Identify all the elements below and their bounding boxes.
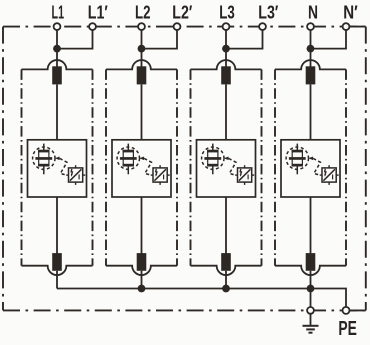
SPD symbol stubs — [244, 165, 246, 168]
SPD symbol diagonal — [239, 169, 251, 180]
module outline bottom edge with arch — [275, 266, 346, 275]
wire arrester box to bottom disconnector — [225, 197, 227, 254]
node junction dot L1/L1′ — [53, 45, 61, 53]
module outline right side (dash-dot) — [176, 69, 178, 265]
wire L3′ terminal down and left to junction — [226, 27, 263, 49]
SPD symbol lightning arrow — [240, 169, 241, 175]
spark gap envelope and electrodes — [207, 150, 218, 153]
module outline bottom edge with arch — [22, 266, 93, 275]
SPD symbol lightning arrow — [71, 169, 72, 175]
terminal L2 — [138, 23, 145, 30]
spark gap (encapsulated) dashed circle — [33, 147, 55, 169]
wire N terminal down to junction — [310, 27, 312, 49]
spark gap (encapsulated) dashed circle — [202, 147, 224, 169]
thermal disconnector (bottom fuse) L1 — [52, 253, 62, 271]
spark gap electrode stubs — [296, 144, 298, 150]
wire junction to top disconnector — [141, 49, 143, 68]
module outline left side (dash-dot) — [274, 69, 276, 265]
SPD symbol diagonal — [323, 169, 335, 180]
wire L3 terminal down to junction — [225, 27, 227, 49]
svg-text:L1′: L1′ — [88, 2, 108, 23]
node bus junction N — [307, 285, 315, 293]
wire L2 terminal down to junction — [141, 27, 143, 49]
thermal disconnector (bottom fuse) L2 — [137, 253, 147, 271]
terminal L1′ — [89, 23, 96, 30]
thermal disconnector (top fuse) L3 — [221, 66, 231, 84]
module outline left side (dash-dot) — [105, 69, 107, 265]
terminal earth — [307, 307, 314, 314]
thermal disconnector (top fuse) L1 — [52, 66, 62, 84]
spark gap envelope and electrodes — [38, 150, 49, 153]
svg-text:L3′: L3′ — [258, 2, 278, 23]
SPD symbol stubs — [328, 165, 330, 168]
disconnector actuation arrow — [139, 157, 144, 161]
disconnector actuation arrow — [308, 157, 313, 161]
enclosure border bottom — [3, 309, 366, 311]
arrester element box U3 — [197, 140, 256, 197]
terminal N — [307, 23, 314, 30]
disconnector actuation arrow — [55, 157, 60, 161]
wire arrester box to bottom disconnector — [56, 197, 58, 254]
spark gap middle electrode bar — [35, 157, 52, 160]
thermal disconnector (top fuse) L2 — [137, 66, 147, 84]
spark gap (encapsulated) dashed circle — [286, 147, 308, 169]
module outline right side (dash-dot) — [261, 69, 263, 265]
PE bus wire — [57, 289, 346, 311]
SPD symbol tick — [163, 175, 165, 180]
wire L1 terminal down to junction — [56, 27, 58, 49]
wire L2′ terminal down and left to junction — [142, 27, 178, 49]
enclosure border left — [2, 27, 4, 311]
node bus junction L2 — [138, 285, 146, 293]
enclosure border (dash-dot) top — [3, 26, 366, 28]
SPD element symbol box — [238, 168, 252, 182]
module outline top edge with arch — [22, 60, 93, 69]
disconnector linkage (dashed) — [144, 158, 151, 175]
svg-text:L3: L3 — [219, 2, 235, 23]
SPD element symbol box — [322, 168, 336, 182]
wire N′ terminal down and left to junction — [311, 27, 347, 49]
wire bottom disconnector to PE bus — [141, 271, 143, 289]
wire junction to top disconnector — [310, 49, 312, 68]
wire disconnector to arrester box — [310, 84, 312, 139]
spark gap middle electrode bar — [120, 157, 137, 160]
wire arrester box to bottom disconnector — [141, 197, 143, 254]
svg-text:L1: L1 — [52, 2, 65, 23]
module outline top edge with arch — [106, 60, 177, 69]
module outline right side (dash-dot) — [92, 69, 94, 265]
node bus junction L3 — [222, 285, 230, 293]
svg-text:PE: PE — [338, 318, 357, 340]
SPD element symbol box — [69, 168, 83, 182]
spark gap electrode stubs — [127, 144, 129, 150]
SPD symbol lightning arrow — [156, 169, 157, 175]
SPD symbol stubs — [75, 165, 77, 168]
SPD symbol tick — [78, 175, 80, 180]
spark gap electrode stubs — [212, 144, 214, 150]
terminal L3′ — [259, 23, 266, 30]
arrester element box U2 — [112, 140, 171, 197]
terminal PE — [343, 307, 350, 314]
wire L1′ terminal down and left to junction — [57, 27, 93, 49]
wire disconnector to arrester box — [141, 84, 143, 139]
thermal disconnector (bottom fuse) N — [306, 253, 316, 271]
wire disconnector to arrester box — [56, 84, 58, 139]
SPD symbol tick — [332, 175, 334, 180]
module outline left side (dash-dot) — [190, 69, 192, 265]
thermal disconnector (top fuse) N — [306, 66, 316, 84]
wire bottom disconnector to PE bus — [310, 271, 312, 289]
terminal N′ — [343, 23, 350, 30]
module outline bottom edge with arch — [191, 266, 262, 275]
svg-text:N′: N′ — [343, 2, 358, 23]
terminal L3 — [223, 23, 230, 30]
module outline left side (dash-dot) — [21, 69, 23, 265]
thermal disconnector (bottom fuse) L3 — [221, 253, 231, 271]
SPD symbol tick — [247, 175, 249, 180]
terminal L1 — [54, 23, 61, 30]
spark gap envelope and electrodes — [292, 150, 303, 153]
border solid segment N' to top-right corner — [346, 26, 366, 28]
spark gap electrode stubs — [43, 144, 45, 150]
disconnector linkage (dashed) — [313, 158, 320, 175]
wire junction to top disconnector — [56, 49, 58, 68]
wire junction to top disconnector — [225, 49, 227, 68]
wire bottom disconnector to PE bus — [56, 271, 58, 289]
disconnector linkage (dashed) — [60, 158, 67, 175]
spark gap middle electrode bar — [204, 157, 221, 160]
enclosure border right — [365, 27, 367, 311]
svg-text:N: N — [308, 2, 318, 23]
arrester element box U1 — [28, 140, 87, 197]
disconnector actuation arrow — [224, 157, 229, 161]
ground symbol — [303, 314, 319, 333]
wire disconnector to arrester box — [225, 84, 227, 139]
spark gap envelope and electrodes — [123, 150, 134, 153]
border solid segment PE to bottom-right corner — [346, 309, 366, 311]
SPD symbol stubs — [159, 165, 161, 168]
node junction dot N/N′ — [307, 45, 315, 53]
terminal L2′ — [174, 23, 181, 30]
svg-text:L2′: L2′ — [172, 2, 192, 23]
node junction dot L2/L2′ — [138, 45, 146, 53]
svg-text:L2: L2 — [135, 2, 151, 23]
SPD symbol diagonal — [154, 169, 166, 180]
wire bottom disconnector to PE bus — [225, 271, 227, 289]
node junction dot L3/L3′ — [222, 45, 230, 53]
disconnector linkage (dashed) — [229, 158, 236, 175]
wire bus to earth terminal — [310, 289, 312, 311]
spark gap middle electrode bar — [289, 157, 306, 160]
module outline top edge with arch — [191, 60, 262, 69]
SPD symbol diagonal — [70, 169, 82, 180]
wire arrester box to bottom disconnector — [310, 197, 312, 254]
module outline right side (dash-dot) — [345, 69, 347, 265]
module outline bottom edge with arch — [106, 266, 177, 275]
module outline top edge with arch — [275, 60, 346, 69]
arrester element box U4 — [281, 140, 340, 197]
SPD symbol lightning arrow — [325, 169, 326, 175]
spark gap (encapsulated) dashed circle — [117, 147, 139, 169]
SPD element symbol box — [153, 168, 167, 182]
